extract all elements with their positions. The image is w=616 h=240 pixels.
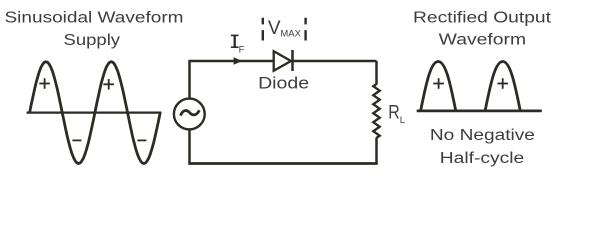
- sine axis line: [27, 111, 162, 113]
- plus sign peak 2: [103, 79, 114, 90]
- plus sign hump 2: [497, 78, 508, 89]
- bottom wire: [188, 162, 377, 165]
- minus sign trough 2: [137, 139, 146, 141]
- svg-text:Half-cycle: Half-cycle: [440, 150, 525, 167]
- svg-text:Waveform: Waveform: [439, 32, 527, 49]
- Vmax dashed bar right: [304, 18, 306, 41]
- rectified hump 1: [421, 62, 456, 111]
- svg-text:Diode: Diode: [258, 74, 309, 92]
- Vmax dashed bar left: [262, 18, 264, 41]
- right wire lower: [375, 138, 378, 164]
- circuit loop wires: [188, 60, 377, 165]
- AC tilde symbol: [181, 110, 200, 115]
- plus sign hump 1: [433, 78, 444, 89]
- svg-text:No Negative: No Negative: [430, 127, 535, 144]
- svg-text:MAX: MAX: [280, 29, 301, 39]
- plus sign peak 1: [39, 78, 50, 89]
- rectified hump 2: [485, 62, 520, 111]
- svg-text:Rectified Output: Rectified Output: [413, 9, 552, 26]
- rectified baseline: [417, 110, 542, 113]
- svg-text:V: V: [268, 18, 281, 39]
- current arrow IF: [234, 57, 243, 65]
- svg-text:R: R: [388, 102, 400, 123]
- diode triangle: [274, 51, 291, 71]
- AC source circle: [174, 99, 205, 130]
- svg-text:L: L: [400, 115, 405, 126]
- svg-text:Supply: Supply: [64, 32, 121, 49]
- label I: [231, 35, 239, 48]
- right wire upper: [375, 61, 378, 85]
- resistor zigzag RL: [373, 84, 379, 138]
- left wire upper: [188, 60, 191, 98]
- svg-text:Sinusoidal Waveform: Sinusoidal Waveform: [5, 10, 184, 27]
- svg-text:F: F: [239, 45, 245, 56]
- left wire lower: [188, 130, 191, 164]
- sine wave: [30, 62, 161, 164]
- minus sign trough 1: [72, 139, 81, 141]
- diode cathode bar: [291, 50, 294, 71]
- top wire: [190, 60, 274, 63]
